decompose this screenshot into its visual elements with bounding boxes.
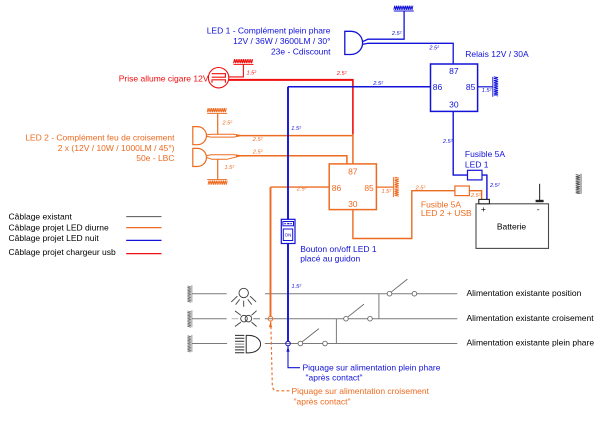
wire orange relay 85 to ground xyxy=(376,186,393,188)
svg-text:2.5²: 2.5² xyxy=(252,137,264,143)
svg-text:1.5²: 1.5² xyxy=(225,165,236,171)
ground existing position xyxy=(187,285,192,302)
relay K1 blue box xyxy=(431,64,478,111)
svg-text:1.5²: 1.5² xyxy=(382,189,393,195)
fuse F2 orange xyxy=(455,186,470,196)
wire LED2 lower main feed xyxy=(236,156,347,164)
ground LED2 lower xyxy=(207,179,227,184)
wire orange relay 30 to fuse xyxy=(353,191,455,239)
wire leader plein phare tap xyxy=(288,346,300,368)
svg-text:Relais 12V / 30A: Relais 12V / 30A xyxy=(465,49,529,59)
svg-text:2.5²: 2.5² xyxy=(391,31,403,37)
ground blue relay 85 xyxy=(493,77,498,97)
svg-text:Alimentation existante positio: Alimentation existante position xyxy=(467,288,582,298)
svg-text:ON: ON xyxy=(285,233,292,238)
wire croisement dashed segment xyxy=(232,318,239,320)
svg-text:Fusible 5A: Fusible 5A xyxy=(465,149,505,159)
wire existing position line xyxy=(192,293,457,295)
arrowhead plein phare tap xyxy=(286,346,289,352)
svg-text:Câblage projet chargeur usb: Câblage projet chargeur usb xyxy=(9,247,117,257)
svg-text:50e - LBC: 50e - LBC xyxy=(136,153,174,163)
svg-text:30: 30 xyxy=(449,100,459,110)
wire blue trunk down to node xyxy=(287,87,289,342)
ground orange relay 85 xyxy=(393,177,398,197)
switch existing position xyxy=(387,279,417,296)
svg-text:30: 30 xyxy=(348,199,358,209)
svg-text:Prise allume cigare 12V: Prise allume cigare 12V xyxy=(119,73,209,83)
wire LED2 lower conductors xyxy=(206,155,240,160)
svg-text:2.5²: 2.5² xyxy=(470,193,482,199)
node croisement tap xyxy=(268,316,273,321)
svg-text:2.5²: 2.5² xyxy=(252,150,264,156)
wire orange relay 86 to croisement tap xyxy=(271,186,330,188)
ground prise allume cigare xyxy=(234,59,254,64)
fuse F1 blue xyxy=(468,170,483,180)
wire socket to ground tap xyxy=(229,65,244,77)
svg-text:LED 2 - Complément feu de croi: LED 2 - Complément feu de croisement xyxy=(25,132,175,142)
ground existing plein phare xyxy=(187,335,192,352)
ground chassis near battery xyxy=(576,174,581,194)
wire blue relay 86 to trunk xyxy=(288,86,431,88)
svg-text:1.5²: 1.5² xyxy=(247,71,258,77)
svg-text:Câblage existant: Câblage existant xyxy=(9,212,73,222)
svg-text:LED 2 + USB: LED 2 + USB xyxy=(421,208,472,218)
ground LED1 xyxy=(394,6,414,11)
cigarette lighter socket P1 xyxy=(208,68,228,88)
battery negative lead xyxy=(539,184,541,200)
wire orange trunk down to node xyxy=(270,187,272,317)
wire LED2 upper ground tap xyxy=(217,114,219,135)
wire connector position-croisement xyxy=(378,294,380,319)
svg-text:1.5²: 1.5² xyxy=(292,284,303,290)
lamp icon croisement light xyxy=(235,311,257,327)
svg-text:"après contact": "après contact" xyxy=(294,397,351,407)
legend sample line existant xyxy=(126,216,161,218)
svg-text:Câblage projet LED diurne: Câblage projet LED diurne xyxy=(9,222,109,232)
svg-text:87: 87 xyxy=(348,167,358,177)
svg-text:Alimentation existante croisem: Alimentation existante croisement xyxy=(467,313,595,323)
relay K2 orange box xyxy=(329,164,376,210)
svg-text:Alimentation existante plein p: Alimentation existante plein phare xyxy=(467,338,595,348)
wire connector croisement-pleinphare xyxy=(335,319,337,344)
svg-text:LED 1 - Complément plein phare: LED 1 - Complément plein phare xyxy=(207,25,331,35)
wire LED1 conductor to ground xyxy=(363,11,404,41)
ground LED2 upper xyxy=(207,108,227,113)
wire blue relay 30 to fuse xyxy=(453,111,467,175)
svg-text:2.5²: 2.5² xyxy=(222,121,234,127)
wire red vertical to relay 87 node xyxy=(352,79,354,134)
wire dashed leader croisement tap xyxy=(271,321,290,390)
svg-text:12V / 36W / 3600LM / 30°: 12V / 36W / 3600LM / 30° xyxy=(233,36,330,46)
socket inner contact top xyxy=(212,74,226,78)
switch S1 bouton on/off xyxy=(281,219,295,243)
svg-text:2.5²: 2.5² xyxy=(372,81,384,87)
legend sample line diurne xyxy=(126,227,161,229)
svg-text:Piquage sur alimentation plein: Piquage sur alimentation plein phare xyxy=(303,362,441,372)
svg-text:23e - Cdiscount: 23e - Cdiscount xyxy=(271,47,331,57)
svg-text:85: 85 xyxy=(466,82,476,92)
socket inner contact bottom xyxy=(212,80,225,83)
svg-text:87: 87 xyxy=(449,66,459,76)
lamp LED2 lower xyxy=(193,148,207,166)
wire LED1 conductor to relay 87 xyxy=(363,43,453,64)
svg-text:2.5²: 2.5² xyxy=(442,139,454,145)
lamp icon plein phare light xyxy=(235,335,261,353)
wire orange fuse to battery xyxy=(469,191,481,200)
svg-text:2.5²: 2.5² xyxy=(428,45,440,51)
node plein phare tap xyxy=(286,341,291,346)
svg-text:Batterie: Batterie xyxy=(497,222,527,232)
svg-text:86: 86 xyxy=(332,183,342,193)
svg-text:2.5²: 2.5² xyxy=(489,183,501,189)
svg-text:placé au guidon: placé au guidon xyxy=(300,254,360,264)
svg-text:85: 85 xyxy=(364,183,374,193)
battery negative post xyxy=(536,200,544,202)
wire blue fuse to battery xyxy=(482,175,487,199)
wire LED2 lower ground tap xyxy=(217,159,219,179)
svg-text:2 x (12V / 10W / 1000LM / 45°): 2 x (12V / 10W / 1000LM / 45°) xyxy=(58,143,175,153)
svg-text:-: - xyxy=(537,204,540,214)
wire existing plein phare line xyxy=(192,343,457,345)
svg-text:2.5²: 2.5² xyxy=(296,187,308,193)
svg-text:Piquage sur alimentation crois: Piquage sur alimentation croisement xyxy=(292,386,430,396)
svg-text:LED 1: LED 1 xyxy=(465,159,489,169)
wire blue relay 85 to ground xyxy=(478,86,493,88)
arrowhead croisement tap xyxy=(269,322,272,328)
switch existing plein phare xyxy=(298,329,327,346)
lamp LED1 xyxy=(345,31,363,54)
battery box xyxy=(476,204,549,249)
svg-text:2.5²: 2.5² xyxy=(336,71,348,77)
battery positive post xyxy=(479,199,490,203)
svg-text:2.5²: 2.5² xyxy=(415,185,427,191)
wire red main 12V feed xyxy=(229,79,353,81)
svg-text:"après contact": "après contact" xyxy=(306,372,363,382)
svg-text:1.5²: 1.5² xyxy=(291,126,302,132)
wire LED2 upper main feed xyxy=(236,135,353,137)
switch existing croisement xyxy=(344,304,373,321)
legend sample line nuit xyxy=(126,239,161,241)
svg-text:+: + xyxy=(481,204,486,214)
svg-text:Câblage projet LED nuit: Câblage projet LED nuit xyxy=(9,233,100,243)
wire existing croisement line xyxy=(192,318,457,320)
ground existing croisement xyxy=(187,310,192,327)
svg-text:1.5²: 1.5² xyxy=(482,88,493,94)
legend sample line usb xyxy=(126,253,161,255)
lamp icon position light xyxy=(231,288,256,307)
svg-text:86: 86 xyxy=(433,82,443,92)
wire orange junction to relay 87 xyxy=(352,134,354,164)
lamp LED2 upper xyxy=(193,127,207,145)
wire LED2 upper conductors xyxy=(206,134,240,137)
svg-text:Bouton on/off LED 1: Bouton on/off LED 1 xyxy=(300,244,377,254)
